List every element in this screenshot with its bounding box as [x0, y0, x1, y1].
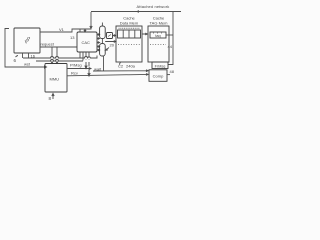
latch bottom to wait wire	[103, 56, 105, 71]
reg to data mem arrow	[113, 35, 116, 37]
branch wires into MMU	[51, 47, 58, 63]
svg-text:20: 20	[110, 43, 115, 48]
svg-text:Attached network: Attached network	[137, 4, 170, 9]
attached network label	[137, 4, 170, 9]
svg-text:PrMsg: PrMsg	[70, 63, 82, 68]
CAC to latch arrows	[97, 34, 100, 52]
svg-text:request: request	[41, 42, 55, 47]
CAC pin to Rcv wire	[88, 52, 90, 76]
Comp box	[149, 70, 167, 82]
tag row ticks	[154, 32, 162, 34]
svg-text:Rcv: Rcv	[71, 71, 78, 76]
svg-text:FrMsg: FrMsg	[155, 64, 166, 68]
right vertical wire	[168, 12, 173, 65]
CAC bottom pins	[80, 52, 83, 61]
node 16 numeral	[31, 54, 36, 59]
node 6 numeral	[14, 58, 17, 63]
node 8 numeral	[49, 96, 52, 101]
svg-text:CAC: CAC	[82, 40, 91, 45]
Cache Data Mem box	[116, 26, 142, 62]
uP bottom pins	[23, 53, 29, 58]
node 13 numeral	[70, 35, 75, 40]
Cache TAG Mem label	[150, 16, 169, 26]
svg-text:Data Mem: Data Mem	[120, 21, 139, 26]
latch to data mem arrow	[105, 41, 116, 43]
CAC box	[77, 32, 97, 52]
svg-text:V1: V1	[59, 27, 65, 32]
request label	[41, 42, 55, 47]
svg-text:C2: C2	[118, 64, 124, 69]
svg-text:wst: wst	[24, 62, 31, 67]
Rcv wire into Comp	[67, 74, 148, 76]
svg-text:13: 13	[70, 35, 75, 40]
node 20 numeral with leader	[110, 43, 115, 48]
MMU bottom arrow	[52, 94, 54, 100]
network arrowhead	[136, 10, 140, 12]
node C2 numeral	[118, 64, 124, 69]
Cache TAG Mem box	[148, 26, 169, 62]
wst label	[24, 62, 31, 67]
small reg box 16	[107, 33, 113, 39]
FrMsg label	[155, 64, 166, 68]
PrMsg label	[70, 63, 82, 68]
latch link	[101, 39, 103, 44]
comp output stub	[167, 74, 170, 76]
svg-text:TAG Mem: TAG Mem	[150, 21, 169, 26]
latch capsule lower	[100, 44, 106, 57]
microprocessor uP box	[14, 28, 40, 53]
tag label	[155, 34, 160, 38]
CAC label	[82, 40, 91, 45]
C2 leader curve	[119, 62, 122, 65]
wire L1 with hops	[23, 56, 97, 59]
data mem header smudge	[119, 27, 140, 29]
wait label	[94, 66, 102, 71]
arrow into latch top	[90, 26, 92, 29]
V1 label	[59, 27, 65, 32]
tag mem dotted row	[150, 44, 166, 46]
Rcv label	[71, 71, 78, 76]
data mem dotted row	[118, 44, 140, 46]
data mem to tag mem arrow	[142, 33, 147, 35]
svg-text:μP: μP	[23, 36, 33, 45]
latch top stub	[101, 23, 103, 27]
node 240a numeral	[126, 63, 136, 68]
wire V1	[40, 12, 91, 32]
svg-text:Comp: Comp	[153, 74, 164, 79]
tag sub box	[150, 32, 166, 38]
MMU label	[50, 77, 60, 82]
latch capsule upper	[100, 26, 106, 39]
tag to right wire	[166, 34, 173, 36]
svg-text:MMU: MMU	[50, 77, 60, 82]
uP label	[23, 36, 33, 45]
MMU box	[45, 64, 67, 93]
svg-text:tag: tag	[155, 34, 160, 38]
leader curve for 6	[16, 56, 19, 58]
Cache Data Mem label	[120, 16, 139, 26]
svg-text:48: 48	[170, 69, 175, 74]
FrMsg box	[152, 62, 168, 69]
wait wire into Comp	[93, 70, 148, 72]
Comp label	[153, 74, 164, 79]
wire L2 with hops	[36, 60, 83, 62]
svg-text:8: 8	[49, 96, 52, 101]
node 44 numeral	[168, 44, 173, 49]
svg-text:44: 44	[168, 44, 173, 49]
PrMsg wire	[67, 68, 91, 70]
left bus bracket	[5, 29, 44, 68]
request wire	[40, 46, 77, 48]
CAC pin to PrMsg wire	[85, 52, 87, 69]
data mem cell row	[118, 30, 141, 38]
svg-text:6: 6	[14, 58, 17, 63]
attached network wire	[91, 11, 181, 13]
svg-text:240a: 240a	[126, 63, 136, 68]
CAC top pins	[80, 29, 86, 32]
cell dividers	[123, 30, 135, 38]
node 48 numeral	[170, 69, 175, 74]
wst wire arrowhead into MMU	[44, 65, 48, 69]
